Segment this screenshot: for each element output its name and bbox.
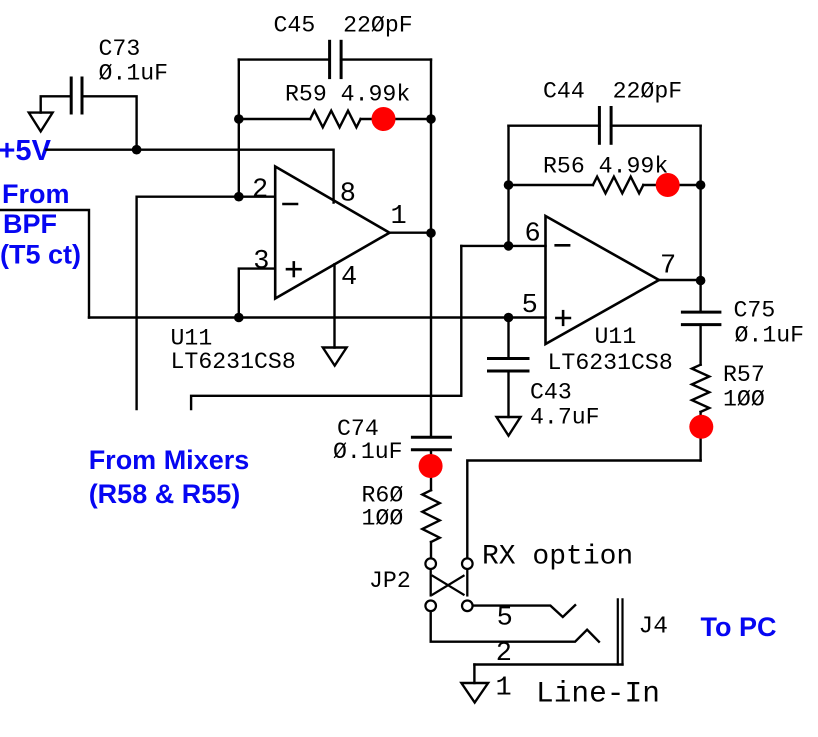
wire R60 to JP2 [430,542,432,558]
resistor R60 [422,490,439,542]
capacitor C44 [599,108,611,144]
junction R56 left [504,180,514,190]
wire C45 top right [341,58,431,60]
label R59 value [285,81,410,107]
wire +5V rail to pin 8 [47,150,334,203]
ground pin 4 [323,348,347,366]
label U11b [548,324,673,376]
svg-text:C75: C75 [734,297,776,323]
resistor R56 [593,177,643,194]
label JP2 [369,568,411,594]
wire feedback2 left vertical [507,126,509,246]
label C73 value [99,36,169,87]
pin 1 label [391,202,407,232]
wire from mixers to pin 6 [191,246,461,409]
svg-text:5: 5 [522,291,538,321]
svg-text:5: 5 [497,604,513,634]
svg-text:RX option: RX option [482,542,633,573]
wire C44 top right [611,124,701,126]
label R60 value [362,483,404,532]
svg-text:+5V: +5V [0,135,52,167]
svg-text:BPF: BPF [3,209,57,239]
wire From BPF [0,210,89,318]
wire pin 4 [333,264,335,347]
wire sleeve row [474,663,622,665]
node From BPF [0,179,81,269]
junction pin 3 bus [234,313,244,323]
svg-text:From Mixers: From Mixers [89,445,250,475]
op-amp U11a [275,167,389,299]
pin 4 label [341,263,357,293]
wire R59 right [361,118,431,120]
label C75 value [734,297,805,348]
svg-text:4: 4 [341,263,357,293]
svg-text:1ØØ: 1ØØ [362,505,404,531]
svg-text:From: From [2,179,70,209]
svg-text:3: 3 [253,247,269,277]
svg-text:1: 1 [391,202,407,232]
svg-text:R57: R57 [723,362,765,388]
label C43 value [530,380,600,431]
capacitor C43 [489,359,529,372]
svg-text:R56 4.99k: R56 4.99k [543,154,668,180]
svg-text:C44 22ØpF: C44 22ØpF [543,79,682,105]
svg-text:Line-In: Line-In [536,677,660,711]
svg-text:C73: C73 [99,36,141,62]
svg-text:2: 2 [252,176,268,206]
red dot R59 [372,107,396,131]
svg-text:LT6231CS8: LT6231CS8 [548,350,673,376]
wire sleeve ground stub [473,665,475,684]
wire C43 to ground [507,371,509,417]
svg-text:Ø.1uF: Ø.1uF [735,322,805,348]
jumper JP2 [425,558,472,611]
wire C45 top left [239,58,330,60]
wire R56 left [509,184,593,186]
red dot C74 [419,454,443,478]
label jack pin 2 [496,639,512,669]
svg-text:7: 7 [660,252,676,282]
label jack pin 5 [497,604,513,634]
wire pin 3 [239,269,275,318]
svg-text:4.7uF: 4.7uF [530,405,600,431]
capacitor C45 [330,41,342,77]
wire signal bus [89,316,546,318]
wire C73 right to +5V rail [82,96,137,149]
svg-text:U11: U11 [595,324,637,350]
pin 2 label [252,176,268,206]
capacitor C74 [412,437,450,450]
wire jack ring row 2 [431,611,599,642]
wire C74 to R60 [430,450,432,490]
node +5V [0,135,52,167]
svg-text:1: 1 [496,674,512,704]
label R57 value [723,362,765,413]
red dot R56 [656,173,680,197]
pin 8 label [340,179,356,209]
ground C73 [29,113,53,132]
label Line-In [536,677,660,711]
pin 3 label [253,247,269,277]
capacitor C75 [682,312,720,325]
wire C73 left to ground [41,96,71,112]
wire R57 to corner [699,412,701,461]
resistor R57 [692,365,709,412]
svg-text:To PC: To PC [701,612,777,642]
label C44 value [543,79,682,105]
node To PC [701,612,777,642]
node From Mixers [89,445,250,509]
ground C43 [497,417,521,436]
svg-text:C45 22ØpF: C45 22ØpF [274,12,413,38]
svg-text:R59 4.99k: R59 4.99k [285,81,410,107]
label U11a [171,326,296,376]
junction op2 output [696,276,706,286]
svg-text:6: 6 [525,219,541,249]
svg-text:Ø.1uF: Ø.1uF [99,61,169,87]
pin 6 label [525,219,541,249]
wire op2 output [659,279,701,281]
label C45 value [274,12,413,38]
svg-text:J4: J4 [639,613,668,640]
wire R56 right [643,184,700,186]
junction +5V / C73 [132,145,142,155]
wire pin 2 [137,197,276,409]
svg-text:C43: C43 [530,380,572,406]
connector J4 [618,599,623,664]
ground J4 [461,683,488,703]
wire feedback2 right vertical [699,126,701,312]
wire pin 6 [461,245,545,247]
wire op1 output [390,231,432,233]
svg-text:Ø.1uF: Ø.1uF [333,439,403,465]
capacitor C73 [71,78,82,113]
label R56 value [543,154,668,180]
junction R59 left [234,114,244,124]
svg-text:(T5 ct): (T5 ct) [0,239,81,269]
svg-text:(R58 & R55): (R58 & R55) [89,479,241,509]
junction R59 right [426,114,436,124]
wire feedback right vertical op1 [430,60,432,438]
junction bus C43 [504,313,514,323]
svg-text:8: 8 [340,179,356,209]
pin 5 label [522,291,538,321]
svg-text:U11: U11 [171,326,213,352]
label J4 [639,613,668,640]
label RX option [482,542,633,573]
wire C75 to R57 [699,325,701,365]
svg-text:JP2: JP2 [369,568,411,594]
junction R56 right [696,180,706,190]
junction op1 output [426,228,436,238]
wire C44 top left [509,124,600,126]
wire RX net to JP2 [467,461,700,559]
junction pin 6 [504,241,514,251]
label C74 value [333,416,403,465]
red dot R57 [689,415,713,439]
junction pin 2 feedback [234,192,244,202]
svg-text:LT6231CS8: LT6231CS8 [171,349,296,375]
wire jack tip row 5 [473,605,575,617]
label jack pin 1 [496,674,512,704]
resistor R59 [310,111,360,128]
svg-text:1ØØ: 1ØØ [723,387,765,413]
wire feedback left vertical [238,60,240,197]
wire bus to C43 [507,318,509,359]
pin 7 label [660,252,676,282]
op-amp U11b [546,216,660,344]
wire R59 left [239,118,310,120]
